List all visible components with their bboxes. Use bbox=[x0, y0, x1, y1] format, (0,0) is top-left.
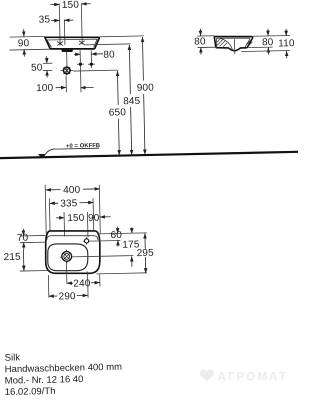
plan back inner edge bbox=[47, 235, 98, 241]
plan outline bbox=[45, 230, 100, 274]
wire: bowl right ext down bbox=[87, 272, 90, 298]
dimension 90 (front rim height) bbox=[10, 35, 45, 38]
wire: plan right ext front edge bbox=[97, 273, 147, 274]
drain (plan) bbox=[60, 256, 133, 258]
dimension 240 (drain to right edge) bbox=[67, 282, 73, 284]
dimension 290 (bowl width) bbox=[49, 295, 58, 297]
dimension 335 (back edge width) bbox=[50, 202, 58, 204]
svg-text:215: 215 bbox=[3, 252, 21, 263]
svg-text:70: 70 bbox=[17, 233, 29, 244]
dimension 175 (back to drain) bbox=[131, 227, 133, 233]
dimension 400 (overall width) bbox=[46, 189, 61, 191]
wire: plan right ext back edge bbox=[98, 233, 147, 234]
waste outlet circle (front) bbox=[60, 69, 73, 71]
dimension 150 (tap hole spacing) bbox=[50, 3, 59, 5]
dimension 80 (side right) bbox=[253, 34, 290, 37]
svg-text:110: 110 bbox=[278, 38, 295, 49]
svg-text:845: 845 bbox=[123, 96, 141, 107]
side view section hatching bbox=[217, 38, 253, 47]
fixing hole right bbox=[90, 50, 92, 68]
wire: tap centerline right (front) bbox=[80, 3, 83, 44]
wire: drain axis below outlet bbox=[65, 76, 67, 93]
wire: drain axis down (plan) bbox=[65, 262, 67, 284]
wire: ext line 150/90 middle (plan) bbox=[86, 212, 89, 237]
wire: ext line 335 left bbox=[48, 198, 51, 231]
dimension 70 (plan left) bbox=[22, 229, 24, 236]
svg-text:150: 150 bbox=[62, 0, 80, 11]
svg-text:80: 80 bbox=[262, 37, 274, 48]
svg-text:100: 100 bbox=[36, 83, 54, 94]
dimension 110 (side right) bbox=[241, 50, 290, 51]
side view bowl section curve bbox=[220, 38, 232, 50]
svg-text:60: 60 bbox=[111, 230, 123, 241]
fixing hole left bbox=[79, 50, 82, 92]
dimension 845 (tap hole height) bbox=[84, 43, 130, 46]
svg-text:80: 80 bbox=[194, 36, 206, 47]
svg-text:295: 295 bbox=[137, 248, 155, 259]
svg-text:50: 50 bbox=[31, 62, 43, 73]
floor line bbox=[0, 152, 300, 158]
wire: bowl left ext down bbox=[47, 275, 49, 298]
wire: tap centerline left (front) bbox=[58, 3, 61, 45]
svg-text:400: 400 bbox=[63, 185, 81, 196]
svg-text:650: 650 bbox=[109, 107, 127, 118]
dimension 60 (back to tap hole) bbox=[117, 227, 119, 234]
svg-text:90: 90 bbox=[18, 38, 30, 49]
basin front inner rim edge bbox=[47, 39, 97, 48]
wire: right edge ext down (plan) bbox=[99, 274, 101, 286]
svg-text:150: 150 bbox=[67, 213, 85, 224]
svg-text:16.02.09/Th: 16.02.09/Th bbox=[5, 386, 56, 398]
wire: plan left ext bowl top bbox=[20, 241, 46, 244]
wire: ext line 150 left (plan) bbox=[63, 212, 66, 236]
wire: ext line 335 right bbox=[92, 198, 95, 231]
svg-text:Mod.- Nr. 12 16 40: Mod.- Nr. 12 16 40 bbox=[5, 374, 84, 387]
tap hole cross left (front) bbox=[57, 41, 63, 45]
svg-text:80: 80 bbox=[103, 49, 115, 60]
dimension 650 (waste outlet height) bbox=[73, 69, 118, 72]
svg-text:АГРОМАТ: АГРОМАТ bbox=[218, 370, 288, 384]
dimension 295 (overall depth) bbox=[144, 233, 147, 273]
side view inner contour bbox=[217, 38, 251, 47]
side view outline bbox=[214, 36, 253, 51]
wire: ext line 400 right bbox=[99, 185, 100, 234]
bowl outline (plan) bbox=[47, 243, 88, 271]
tap hole cross right (front) bbox=[79, 41, 85, 45]
wire: plan left ext back bbox=[20, 234, 46, 237]
dimension 80 (side left) bbox=[198, 35, 215, 37]
svg-text:Silk: Silk bbox=[5, 352, 21, 363]
wire: side view drain centerline bbox=[233, 39, 235, 54]
dimension 150 / 90 (plan tap position) bbox=[56, 217, 64, 219]
drain fitting (front) bbox=[61, 48, 73, 52]
svg-text:90: 90 bbox=[88, 213, 100, 224]
wire: ext line 400 left bbox=[45, 185, 46, 234]
wire: plan left ext bowl bottom bbox=[20, 269, 48, 272]
dimension 215 (plan left) bbox=[22, 249, 24, 264]
wire: tap offset line 35 (front) bbox=[63, 19, 66, 44]
dimension 50 bbox=[43, 62, 52, 64]
dimension 900 (rim height) bbox=[100, 35, 144, 38]
svg-text:900: 900 bbox=[137, 83, 155, 94]
dimension 80 (fixing hole spacing) bbox=[74, 53, 80, 55]
tap hole (plan) bbox=[83, 239, 120, 242]
watermark logo heart bbox=[200, 369, 214, 381]
wire: drain axis between fitting and outlet bbox=[66, 52, 68, 67]
basin front outline bbox=[45, 36, 100, 50]
svg-text:335: 335 bbox=[60, 198, 78, 209]
svg-text:35: 35 bbox=[39, 14, 51, 25]
svg-text:290: 290 bbox=[58, 291, 76, 302]
svg-text:240: 240 bbox=[73, 278, 91, 289]
